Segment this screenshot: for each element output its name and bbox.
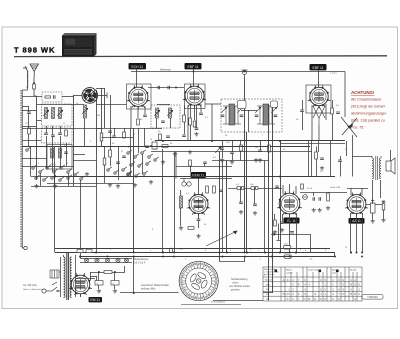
- ground: [253, 211, 257, 215]
- dial lamp La5: [124, 258, 128, 262]
- capacitor C26: [280, 222, 284, 224]
- switch contact S3: [46, 165, 51, 169]
- wire: [96, 128, 162, 130]
- svg-text:ECH 11: ECH 11: [131, 65, 143, 69]
- wire: [268, 141, 270, 145]
- wire: [302, 112, 304, 130]
- capacitor C8a: [122, 156, 126, 158]
- wire screen bus: [55, 176, 335, 178]
- switch contact S12: [74, 172, 79, 176]
- tube label box EM11: [89, 297, 103, 302]
- svg-text:1: 1: [214, 282, 215, 284]
- junction: [133, 292, 135, 294]
- resistor R23 field coil: [104, 271, 112, 274]
- wire: [254, 188, 256, 204]
- capacitor C20b: [338, 160, 342, 162]
- junction: [254, 187, 256, 189]
- svg-text:27: 27: [182, 276, 184, 278]
- capacitor C7: [64, 152, 68, 154]
- capacitor C4b: [108, 131, 112, 133]
- trimmer arrow: [215, 147, 221, 153]
- junction: [361, 256, 363, 258]
- wire: [318, 125, 320, 141]
- wire: [372, 180, 374, 204]
- capacitor C13c: [195, 128, 199, 130]
- capacitor C4c: [112, 136, 116, 138]
- wire tap upper: [22, 106, 29, 108]
- svg-text:Pos. 75. ’: Pos. 75. ’: [351, 126, 366, 130]
- dial pointer cord: [341, 117, 357, 137]
- resistor R17: [237, 187, 244, 190]
- capacitor C13: [199, 113, 203, 115]
- ground: [254, 158, 258, 162]
- wire: [289, 184, 291, 193]
- wire: [361, 188, 363, 195]
- wire tie3: [102, 137, 134, 139]
- capacitor C6: [58, 133, 62, 135]
- wire AVC line: [151, 151, 269, 153]
- capacitor C25: [275, 186, 279, 188]
- electrolytic capacitor C30: [95, 281, 103, 286]
- resistor R16: [188, 227, 194, 230]
- wire: [204, 164, 206, 167]
- svg-text:15: 15: [207, 294, 209, 296]
- resistor R20c on heater bus: [284, 255, 291, 258]
- svg-text:11: 11: [191, 266, 193, 268]
- wire: [22, 96, 42, 98]
- capacitor C12: [168, 86, 170, 90]
- wire: [162, 149, 164, 253]
- wire: [142, 154, 144, 174]
- coil AF choke: [180, 196, 183, 208]
- switch contact S5: [60, 165, 65, 169]
- capacitor C27: [313, 197, 315, 201]
- trimmer arrow: [255, 107, 261, 113]
- wire: [282, 214, 284, 222]
- svg-text:schalter: schalter: [286, 271, 293, 274]
- wire filter line: [90, 272, 125, 274]
- wire mains to transformer: [59, 271, 61, 273]
- resistor R7: [154, 143, 157, 149]
- wafer switch diagram: [179, 261, 218, 300]
- junction: [295, 252, 297, 254]
- wire: [124, 266, 126, 272]
- resistor R13: [268, 145, 271, 152]
- wire: [180, 190, 182, 196]
- wire: [193, 72, 195, 87]
- wire: [114, 285, 116, 289]
- capacitor C10: [145, 146, 149, 148]
- phono jack TA: [242, 70, 248, 77]
- ground: [149, 180, 153, 184]
- wire: [138, 128, 140, 153]
- svg-text:2M: 2M: [97, 115, 100, 117]
- resistor R12: [331, 108, 334, 114]
- junction: [133, 256, 135, 258]
- svg-text:d: d: [305, 250, 306, 252]
- wire: [28, 106, 30, 112]
- svg-text:Skalenlampen: Skalenlampen: [134, 259, 149, 261]
- svg-text:29: 29: [195, 297, 197, 299]
- wire AF line: [180, 178, 232, 180]
- resistor R11: [240, 145, 243, 151]
- wire AVC return bus: [55, 248, 330, 250]
- resistor R6: [137, 119, 140, 125]
- wire: [144, 128, 146, 146]
- terminal stub: [277, 240, 281, 242]
- wire: [280, 141, 282, 253]
- svg-text:8: 8: [212, 289, 213, 291]
- junction on heater bus: [173, 256, 175, 258]
- coil L5: [59, 148, 62, 158]
- wire: [54, 147, 56, 253]
- electrolytic capacitor C31: [111, 281, 119, 286]
- tuning condenser circle: [82, 88, 98, 104]
- coil L1: [45, 108, 48, 119]
- switch contact S16: [122, 167, 127, 171]
- svg-text:Gezeichnet: Wellenschalter-: Gezeichnet: Wellenschalter-: [141, 284, 170, 287]
- svg-text:Bereich: Bereich: [265, 279, 273, 282]
- svg-text:Tastenschalter: Tastenschalter: [308, 269, 321, 272]
- ground bus end terminal: [22, 246, 27, 249]
- junction on HT bus: [95, 252, 97, 254]
- fuse lamp: [303, 195, 308, 200]
- svg-text:Gleich- u. Wechselstrom: Gleich- u. Wechselstrom: [23, 288, 44, 291]
- capacitor C13b: [182, 135, 186, 137]
- switch contact S15: [114, 170, 119, 174]
- dial lamp La4: [116, 258, 120, 262]
- ground: [280, 228, 284, 232]
- resistor R10: [162, 145, 168, 148]
- wire: [372, 213, 374, 219]
- wire: [198, 220, 200, 228]
- wire IF output bus pair: [280, 143, 345, 145]
- svg-text:EM 11: EM 11: [90, 298, 100, 302]
- wire heater drop a: [350, 213, 352, 253]
- wire: [352, 135, 354, 177]
- wire: [264, 161, 266, 253]
- chassis ground bus (hatched): [21, 90, 22, 248]
- svg-text:c: c: [258, 250, 259, 252]
- capacitor C21: [219, 190, 223, 192]
- svg-text:(901) liegt der Scharf-: (901) liegt der Scharf-: [351, 105, 387, 109]
- svg-text:Ein-Aus: Ein-Aus: [350, 269, 357, 272]
- tube label box EBF11 (2): [310, 64, 327, 70]
- wire: [316, 159, 318, 177]
- switch contact S21: [138, 163, 143, 167]
- wire HT bus: [55, 252, 335, 254]
- wire: [325, 104, 327, 120]
- tuning-eye wedge inside V4: [193, 199, 204, 209]
- connector bead: [169, 248, 172, 253]
- wire: [110, 95, 112, 128]
- resistor R8: [193, 121, 196, 127]
- dial lamp La2: [95, 258, 99, 262]
- wire: [211, 104, 213, 141]
- junction: [240, 187, 242, 189]
- ground: [85, 172, 89, 176]
- switch position table: [263, 267, 362, 301]
- resistor R2a: [28, 128, 31, 134]
- wire eye to label: [80, 294, 82, 297]
- switch contact S23: [154, 157, 159, 161]
- wire heater drop b: [362, 213, 364, 253]
- dashed box antenna trap: [42, 92, 62, 102]
- svg-text:25: 25: [204, 266, 206, 268]
- wire: [46, 126, 48, 133]
- wire: [28, 134, 30, 147]
- junction: [244, 71, 246, 73]
- tube V7 EM11: [69, 273, 92, 297]
- capacitor C11: [158, 86, 160, 90]
- wire: [278, 224, 280, 241]
- tube V5 EL11: [277, 191, 302, 216]
- svg-text:11: 11: [66, 163, 68, 165]
- wire condenser rotor: [74, 94, 83, 96]
- wire: [248, 110, 250, 132]
- junction: [33, 82, 35, 84]
- capacitor C17: [230, 152, 234, 154]
- svg-text:18: 18: [197, 264, 199, 266]
- wire: [350, 188, 352, 195]
- resistor R14: [206, 186, 209, 193]
- wire tap: [22, 110, 36, 112]
- switch contact S10: [59, 177, 64, 181]
- resistor R22: [382, 201, 385, 210]
- svg-text:4: 4: [186, 270, 187, 272]
- switch contact S22: [146, 161, 151, 165]
- diode section funnel below tube V3: [313, 106, 325, 125]
- junction: [350, 252, 352, 254]
- wire: [313, 192, 315, 196]
- svg-text:8: 8: [134, 134, 135, 136]
- ground: [188, 150, 192, 154]
- radio cabinet photo: [62, 33, 97, 57]
- wire: [96, 88, 105, 90]
- wire: [98, 285, 100, 289]
- capacitor C19: [300, 110, 304, 112]
- wire: [310, 234, 312, 253]
- svg-text:2x 50: 2x 50: [307, 188, 313, 190]
- trimmer arrow: [82, 108, 88, 114]
- wire: [98, 272, 100, 281]
- wire heater drop: [80, 180, 82, 258]
- coil L6: [84, 105, 87, 118]
- resistor R5: [109, 150, 112, 157]
- tube label box ECH11: [129, 63, 147, 69]
- junction on heater bus: [334, 256, 336, 258]
- wire long drop 2: [246, 132, 248, 253]
- dashed box band filter 2: [42, 128, 73, 143]
- switch contact S26: [143, 171, 148, 175]
- wire: [383, 201, 385, 204]
- svg-text:13: 13: [184, 289, 186, 291]
- svg-text:EBF 11: EBF 11: [187, 65, 198, 69]
- wire: [244, 257, 246, 263]
- wire: [308, 141, 310, 177]
- wire lamp row bottom: [80, 262, 132, 264]
- magic-eye sectors V7: [75, 280, 86, 289]
- wire: [318, 70, 320, 87]
- resistor R8b: [183, 115, 186, 122]
- padder capacitor: [150, 142, 157, 149]
- junction: [289, 256, 291, 258]
- tube V3 EBF11: [306, 85, 331, 113]
- wire: [22, 166, 73, 168]
- wire: [137, 107, 139, 119]
- wire long drop to switch: [219, 152, 221, 262]
- wire to table: [263, 292, 272, 294]
- capacitor C23: [239, 202, 243, 204]
- junction: [289, 252, 291, 254]
- wire diode load: [318, 141, 320, 152]
- switch contact S2: [39, 169, 44, 173]
- resistor R8c: [189, 118, 192, 125]
- wire rectifier cathode down: [356, 214, 358, 253]
- wire anode line: [347, 188, 368, 190]
- svg-text:+: +: [96, 281, 98, 285]
- wire: [198, 178, 200, 195]
- wire: [114, 272, 116, 281]
- wire: [52, 137, 54, 172]
- svg-text:1M: 1M: [255, 147, 258, 149]
- table header black marks: [275, 270, 278, 273]
- capacitor across IF transformer T1: [221, 115, 225, 117]
- junction on HT bus: [219, 252, 221, 254]
- ground: [113, 289, 117, 293]
- dashed box IF transformers: [221, 99, 282, 132]
- ground: [196, 234, 200, 238]
- resistor R20: [274, 220, 277, 226]
- resistor R4: [100, 133, 103, 141]
- wire: [282, 185, 284, 194]
- ground: [220, 158, 224, 162]
- wire: [62, 96, 74, 98]
- switch contact S16: [127, 150, 132, 154]
- junction: [246, 252, 248, 254]
- wire: [274, 214, 276, 220]
- resistor R20b: [284, 246, 291, 250]
- wire: [46, 136, 48, 168]
- coil can box: [47, 145, 72, 170]
- capacitor C15: [166, 136, 170, 138]
- resistor R3: [65, 130, 68, 136]
- switch contact S1: [32, 165, 37, 169]
- resistor R18: [251, 187, 258, 190]
- svg-text:KW: KW: [266, 289, 269, 291]
- dial lamp La1: [84, 258, 88, 262]
- resistor R1: [33, 84, 36, 89]
- wire: [74, 154, 86, 156]
- svg-text:+: +: [112, 281, 114, 285]
- wire AVC extension: [269, 151, 312, 153]
- junction: [98, 271, 100, 273]
- wire: [114, 128, 116, 136]
- mains plug: [42, 289, 52, 293]
- wire: [54, 173, 56, 186]
- wire lamp row top: [80, 258, 132, 260]
- voltage selector: [50, 270, 59, 278]
- wire: [170, 118, 172, 128]
- switch contact S6: [67, 169, 72, 173]
- resistor R2: [45, 96, 51, 98]
- wire transformer to eye: [76, 278, 96, 280]
- wire: [232, 141, 234, 152]
- output transformer: [372, 156, 381, 180]
- electrolytic capacitor C29: [371, 199, 376, 213]
- junction on HT bus: [264, 252, 266, 254]
- capacitor C18: [336, 112, 340, 114]
- ground: [239, 210, 243, 214]
- capacitor C14: [161, 121, 165, 123]
- junction: [279, 140, 281, 142]
- svg-text:abstimmungsanzeiger: abstimmungsanzeiger: [351, 112, 387, 116]
- tube label box EL11: [284, 218, 300, 224]
- dial cord diagonal: [206, 231, 237, 246]
- resistor R5b: [123, 132, 126, 138]
- IF transformer T1: [223, 104, 241, 125]
- svg-text:geschlossen: geschlossen: [264, 274, 275, 276]
- wire: [232, 154, 234, 160]
- junction: [175, 87, 177, 89]
- svg-text:Ca. 220 Volt~: Ca. 220 Volt~: [23, 284, 38, 287]
- capacitor C2a: [27, 112, 31, 114]
- wire: [330, 141, 332, 177]
- wire: [196, 105, 198, 128]
- wire between IFTs: [241, 110, 257, 112]
- table cell data: [283, 279, 361, 301]
- svg-text:Preßstoffplatte: Preßstoffplatte: [211, 300, 226, 303]
- junction on HT bus: [133, 252, 135, 254]
- wire: [68, 173, 70, 186]
- svg-text:vom Schalter heraus: vom Schalter heraus: [229, 285, 251, 288]
- junction on HT bus: [361, 252, 363, 254]
- wire: [390, 150, 392, 161]
- junction on HT bus: [289, 252, 291, 254]
- wire: [190, 166, 192, 172]
- junction: [162, 140, 164, 142]
- IF coil form b: [271, 101, 278, 108]
- wire: [130, 106, 132, 128]
- antenna symbol: [23, 64, 39, 77]
- wire: [295, 186, 297, 194]
- ground: [318, 208, 322, 212]
- junction: [279, 176, 281, 178]
- ground: [161, 160, 165, 164]
- stamp box T 898 WK: [362, 295, 383, 300]
- wire: [346, 141, 348, 156]
- wire: [30, 147, 32, 177]
- wire: [47, 183, 134, 185]
- ground: [273, 230, 277, 234]
- wire: [60, 136, 62, 168]
- wire: [90, 272, 92, 281]
- junction on HT bus: [246, 252, 248, 254]
- wire label to tube: [136, 69, 138, 87]
- wire: [74, 160, 97, 162]
- power transformer: [61, 253, 76, 300]
- switch contact S0: [26, 147, 31, 151]
- capacitor C22: [197, 219, 201, 221]
- wire: [240, 141, 242, 145]
- wire: [118, 147, 120, 181]
- ground: [312, 208, 316, 212]
- svg-text:6,3 V 0,3 A: 6,3 V 0,3 A: [134, 262, 146, 265]
- junction: [114, 271, 116, 273]
- tube label box EFM11: [191, 172, 207, 178]
- wire aux antenna: [22, 77, 27, 90]
- capacitor C20: [258, 150, 262, 152]
